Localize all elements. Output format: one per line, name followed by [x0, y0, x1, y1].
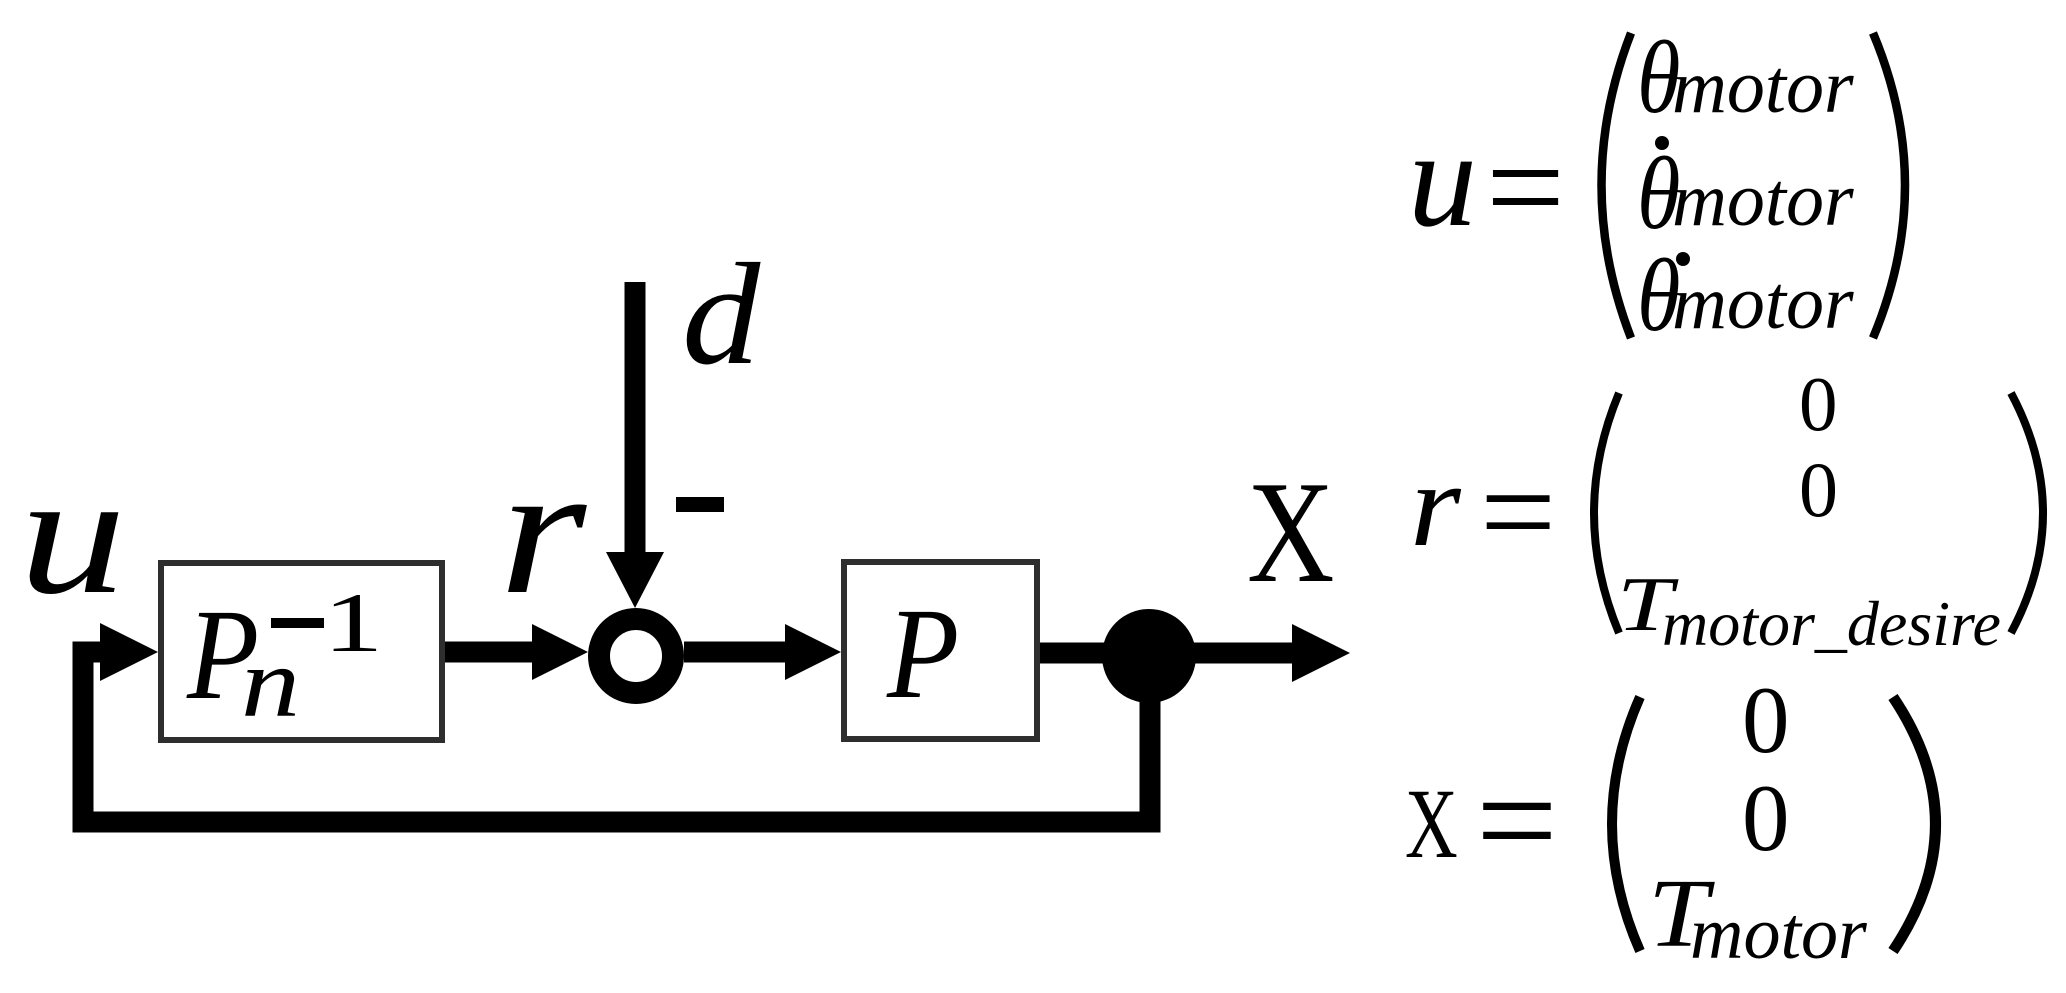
svg-text:0: 0 [1742, 765, 1790, 871]
svg-text:r: r [499, 427, 587, 633]
svg-text:motor: motor [1672, 261, 1854, 345]
svg-text:motor_desire: motor_desire [1662, 588, 2001, 659]
svg-text:0: 0 [1799, 361, 1838, 447]
svg-text:1: 1 [323, 575, 383, 669]
svg-text:X: X [1405, 768, 1458, 879]
svg-text:=: = [1476, 741, 1558, 901]
svg-text:motor: motor [1690, 893, 1868, 975]
svg-text:=: = [1480, 438, 1556, 587]
svg-text:motor: motor [1672, 45, 1854, 129]
svg-text:X: X [1247, 452, 1335, 614]
svg-text:n: n [241, 627, 300, 738]
svg-text:motor: motor [1672, 158, 1854, 242]
svg-text:u: u [1408, 102, 1477, 255]
svg-text:P: P [886, 581, 959, 725]
svg-text:0: 0 [1742, 667, 1790, 773]
svg-text:u: u [19, 438, 126, 630]
svg-text:d: d [682, 233, 761, 395]
svg-text:0: 0 [1799, 446, 1838, 533]
svg-text:r: r [1410, 439, 1462, 572]
svg-text:=: = [1486, 110, 1565, 265]
